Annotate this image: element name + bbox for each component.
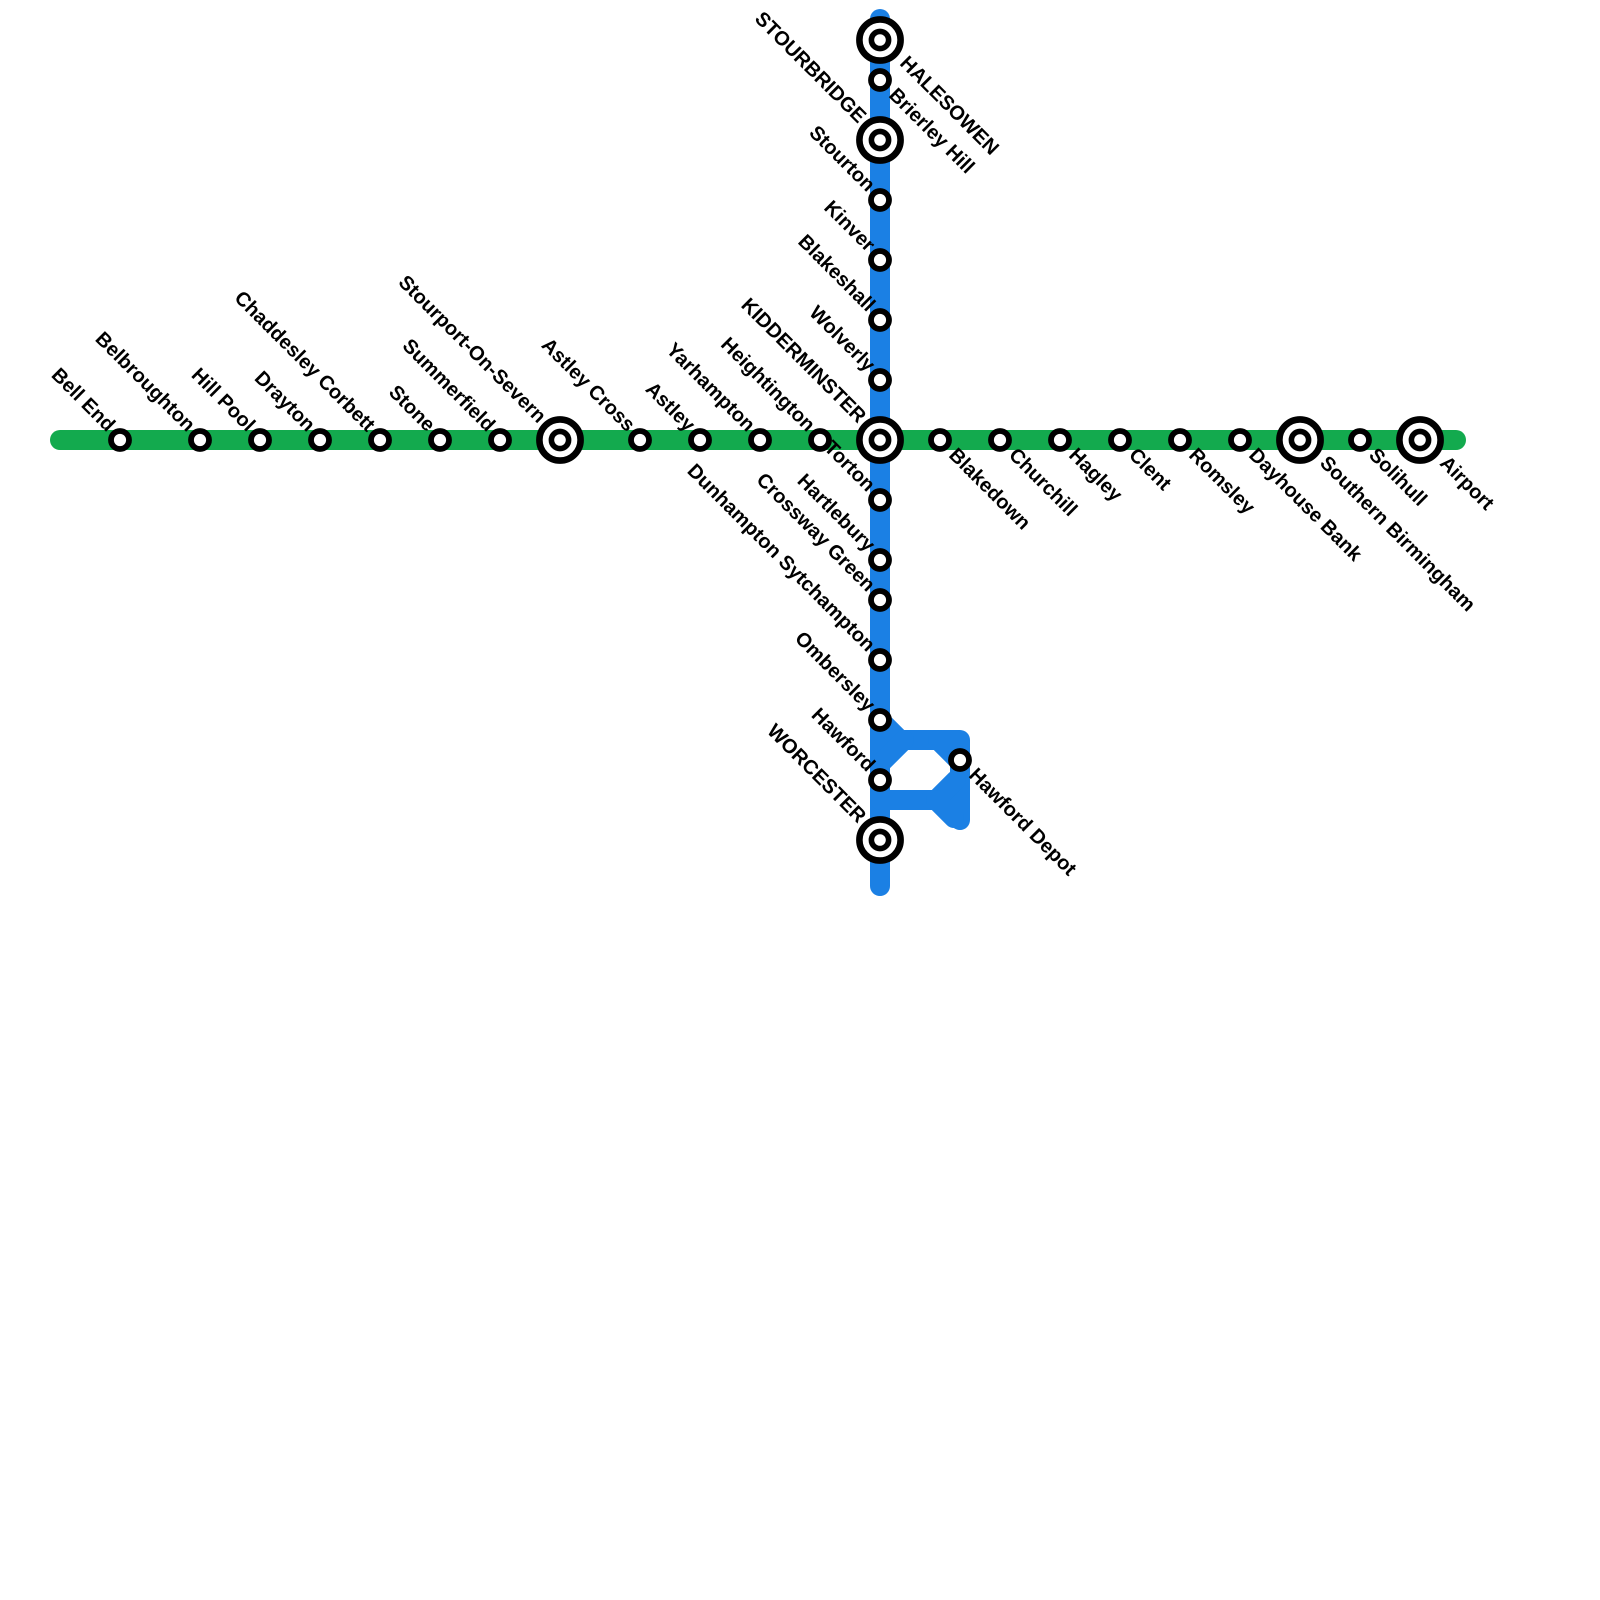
station Summerfield [491, 431, 509, 449]
station WORCESTER [859, 819, 900, 860]
station Blakedown [931, 431, 949, 449]
station Brierley Hill [871, 71, 889, 89]
station STOURBRIDGE [859, 119, 900, 160]
blue branch lower connector [880, 780, 956, 800]
station Belbroughton [191, 431, 209, 449]
station Wolverly [871, 371, 889, 389]
station Dunhampton Sytchampton [871, 651, 889, 669]
station Stourton [871, 191, 889, 209]
station Torton [871, 491, 889, 509]
blue branch lower brace [936, 800, 954, 818]
station Hagley [1051, 431, 1069, 449]
station Drayton [311, 431, 329, 449]
station Airport [1399, 419, 1440, 460]
station Chaddesley Corbett [371, 431, 389, 449]
station Yarhampton [751, 431, 769, 449]
station Astley [691, 431, 709, 449]
green line Stourport route [60, 430, 1456, 450]
station Astley Cross [631, 431, 649, 449]
blue branch upper wishbone lower arm [880, 740, 904, 764]
station Bell End [111, 431, 129, 449]
station Stone [431, 431, 449, 449]
station Heightington [811, 431, 829, 449]
station HALESOWEN [859, 19, 900, 60]
station Churchill [991, 431, 1009, 449]
station Clent [1111, 431, 1129, 449]
station Hawford [871, 771, 889, 789]
station Stourport-On-Severn [539, 419, 580, 460]
station Hawford Depot [951, 751, 969, 769]
station Solihull [1351, 431, 1369, 449]
station Hill Pool [251, 431, 269, 449]
station KIDDERMINSTER [859, 419, 900, 460]
station Ombersley [871, 711, 889, 729]
station Dayhouse Bank [1231, 431, 1249, 449]
station Crossway Green [871, 591, 889, 609]
blue branch corner brace [938, 740, 956, 758]
blue line Worcester route [870, 19, 890, 886]
station Romsley [1171, 431, 1189, 449]
station Hartlebury [871, 551, 889, 569]
station Blakeshall [871, 311, 889, 329]
station Southern Birmingham [1279, 419, 1320, 460]
station Kinver [871, 251, 889, 269]
blue branch upper connector to Hawford Depot [880, 720, 960, 820]
